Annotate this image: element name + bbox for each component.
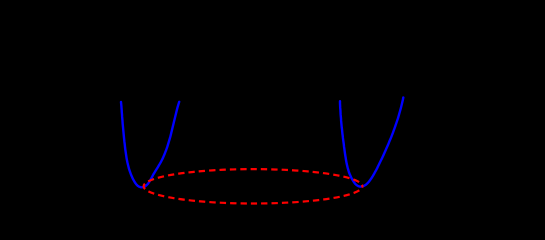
left potential well curve: [121, 102, 179, 188]
right potential well curve: [340, 98, 403, 187]
circle of minima (dashed red ellipse): [144, 169, 363, 203]
